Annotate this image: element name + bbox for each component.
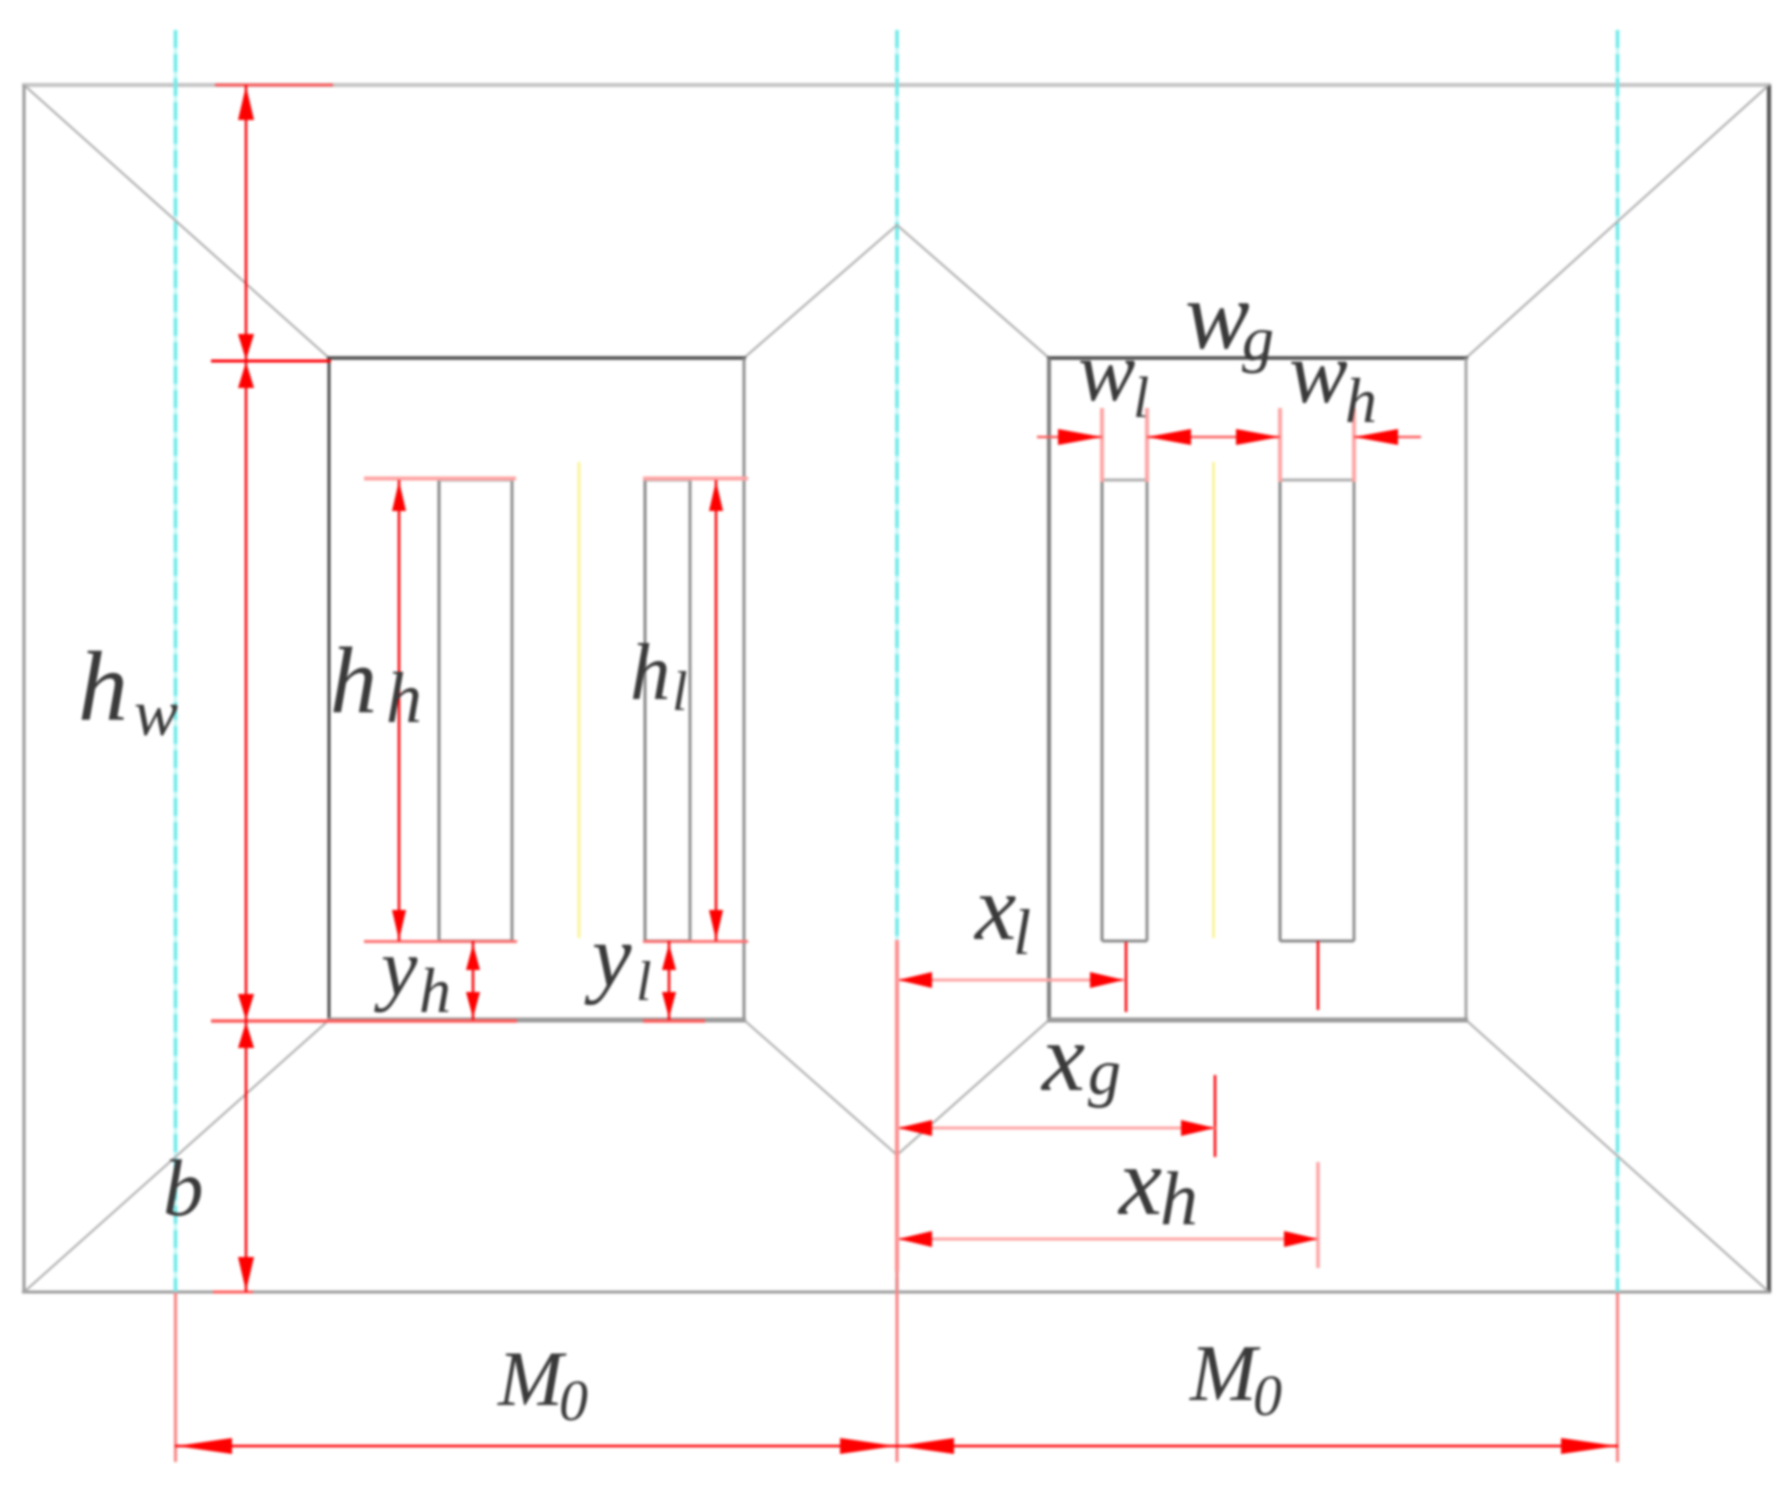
label w_h xyxy=(1289,325,1377,436)
yellow slot-gap centerline left cell xyxy=(578,462,581,938)
svg-text:w: w xyxy=(1078,323,1135,419)
label h_h xyxy=(330,629,422,738)
x_g dimension line xyxy=(897,1120,1215,1136)
svg-text:x: x xyxy=(1117,1128,1162,1235)
svg-text:l: l xyxy=(636,951,652,1013)
svg-text:w: w xyxy=(134,677,178,750)
svg-text:h: h xyxy=(1160,1157,1198,1241)
svg-text:g: g xyxy=(1242,303,1274,374)
svg-text:M: M xyxy=(497,1335,567,1422)
label x_l xyxy=(973,857,1031,969)
label h_l xyxy=(630,627,688,723)
extension stub below wide slot (x_h upper) xyxy=(1317,941,1320,1010)
h_h dimension line xyxy=(392,480,406,941)
svg-text:w: w xyxy=(1185,262,1250,369)
svg-text:w: w xyxy=(1289,325,1348,422)
M0 right dimension line xyxy=(897,1438,1618,1454)
pink extension line at slot bottoms, left cell xyxy=(364,940,748,943)
svg-text:b: b xyxy=(163,1143,204,1233)
svg-text:x: x xyxy=(973,857,1016,960)
label y_l xyxy=(584,908,652,1013)
y_h dimension line xyxy=(466,941,480,1020)
x_h dimension line xyxy=(897,1231,1318,1247)
left unit-cell rectangle xyxy=(327,358,746,1020)
svg-text:h: h xyxy=(1345,365,1377,436)
diagonal bottom-left corner xyxy=(24,1020,329,1292)
svg-text:M: M xyxy=(1189,1330,1261,1418)
label M_0 left xyxy=(497,1335,588,1433)
left cell wide slot (h_h) xyxy=(439,480,512,941)
svg-text:h: h xyxy=(78,631,128,742)
cyan centerline middle xyxy=(895,30,899,1292)
right cell wide slot (w_h) xyxy=(1280,480,1354,941)
svg-text:h: h xyxy=(386,658,422,738)
svg-text:h: h xyxy=(419,955,451,1026)
extension tick at cell bottom (h_w / b boundary) xyxy=(211,1019,705,1023)
label x_h xyxy=(1117,1128,1198,1241)
h_l dimension line xyxy=(709,480,723,941)
yellow slot-gap centerline right cell xyxy=(1212,462,1215,938)
center top V diagonals xyxy=(744,225,1049,358)
w dimension extension lines (slot edges, right cell) xyxy=(1102,408,1354,482)
diagonal top-left corner xyxy=(24,85,329,358)
label M_0 right xyxy=(1189,1330,1282,1428)
x_g extension line xyxy=(1214,1075,1217,1157)
diagonal top-right corner xyxy=(1466,85,1769,358)
label h_w xyxy=(78,631,178,750)
svg-text:h: h xyxy=(630,627,671,717)
svg-text:g: g xyxy=(1088,1036,1121,1109)
left cell narrow slot (h_l) xyxy=(645,480,690,941)
y_l dimension line xyxy=(662,941,676,1020)
svg-text:y: y xyxy=(584,908,632,1006)
x_h lower extension line xyxy=(1316,1162,1320,1268)
diagonal bottom-right corner xyxy=(1466,1020,1769,1292)
label x_g xyxy=(1040,1004,1121,1111)
svg-text:l: l xyxy=(1133,365,1149,430)
M0 extension line below left cyan xyxy=(174,1292,177,1462)
label w_l xyxy=(1078,323,1149,430)
label w_g xyxy=(1185,262,1274,374)
cyan centerline right xyxy=(1616,30,1620,1292)
svg-text:h: h xyxy=(330,629,377,733)
label y_h xyxy=(374,922,451,1026)
w_l / w_g / w_h dimension line xyxy=(1037,429,1421,445)
svg-text:l: l xyxy=(1013,897,1031,969)
cyan centerline left xyxy=(174,30,178,1292)
svg-text:0: 0 xyxy=(559,1368,588,1433)
M0 left dimension line xyxy=(175,1438,897,1454)
extension tick at outer bottom for b xyxy=(213,1291,253,1294)
pink extension line at slot tops, left cell xyxy=(364,477,748,481)
extension tick at outer top for h-dimension xyxy=(215,84,333,87)
label b xyxy=(163,1143,204,1233)
outer ground-plane rectangle xyxy=(22,85,1771,1292)
center bottom V diagonals xyxy=(744,1020,1049,1155)
svg-text:0: 0 xyxy=(1253,1363,1282,1428)
extension stub below narrow slot (x_l) xyxy=(1125,942,1128,1012)
svg-text:x: x xyxy=(1040,1004,1085,1111)
svg-text:l: l xyxy=(672,661,688,723)
red reference line at array center below cells xyxy=(895,940,899,1271)
extension tick at cell top for h_w xyxy=(211,360,331,363)
M0 extension line below right cyan xyxy=(1616,1292,1619,1462)
main vertical dimension line x=246 (top gap, h_w, b) xyxy=(238,85,254,1292)
svg-text:y: y xyxy=(374,922,418,1013)
right cell narrow slot (w_l) xyxy=(1102,480,1147,941)
x_l dimension line xyxy=(897,972,1124,988)
right unit-cell rectangle xyxy=(1047,358,1468,1020)
M0 extension line below center xyxy=(896,1271,899,1462)
